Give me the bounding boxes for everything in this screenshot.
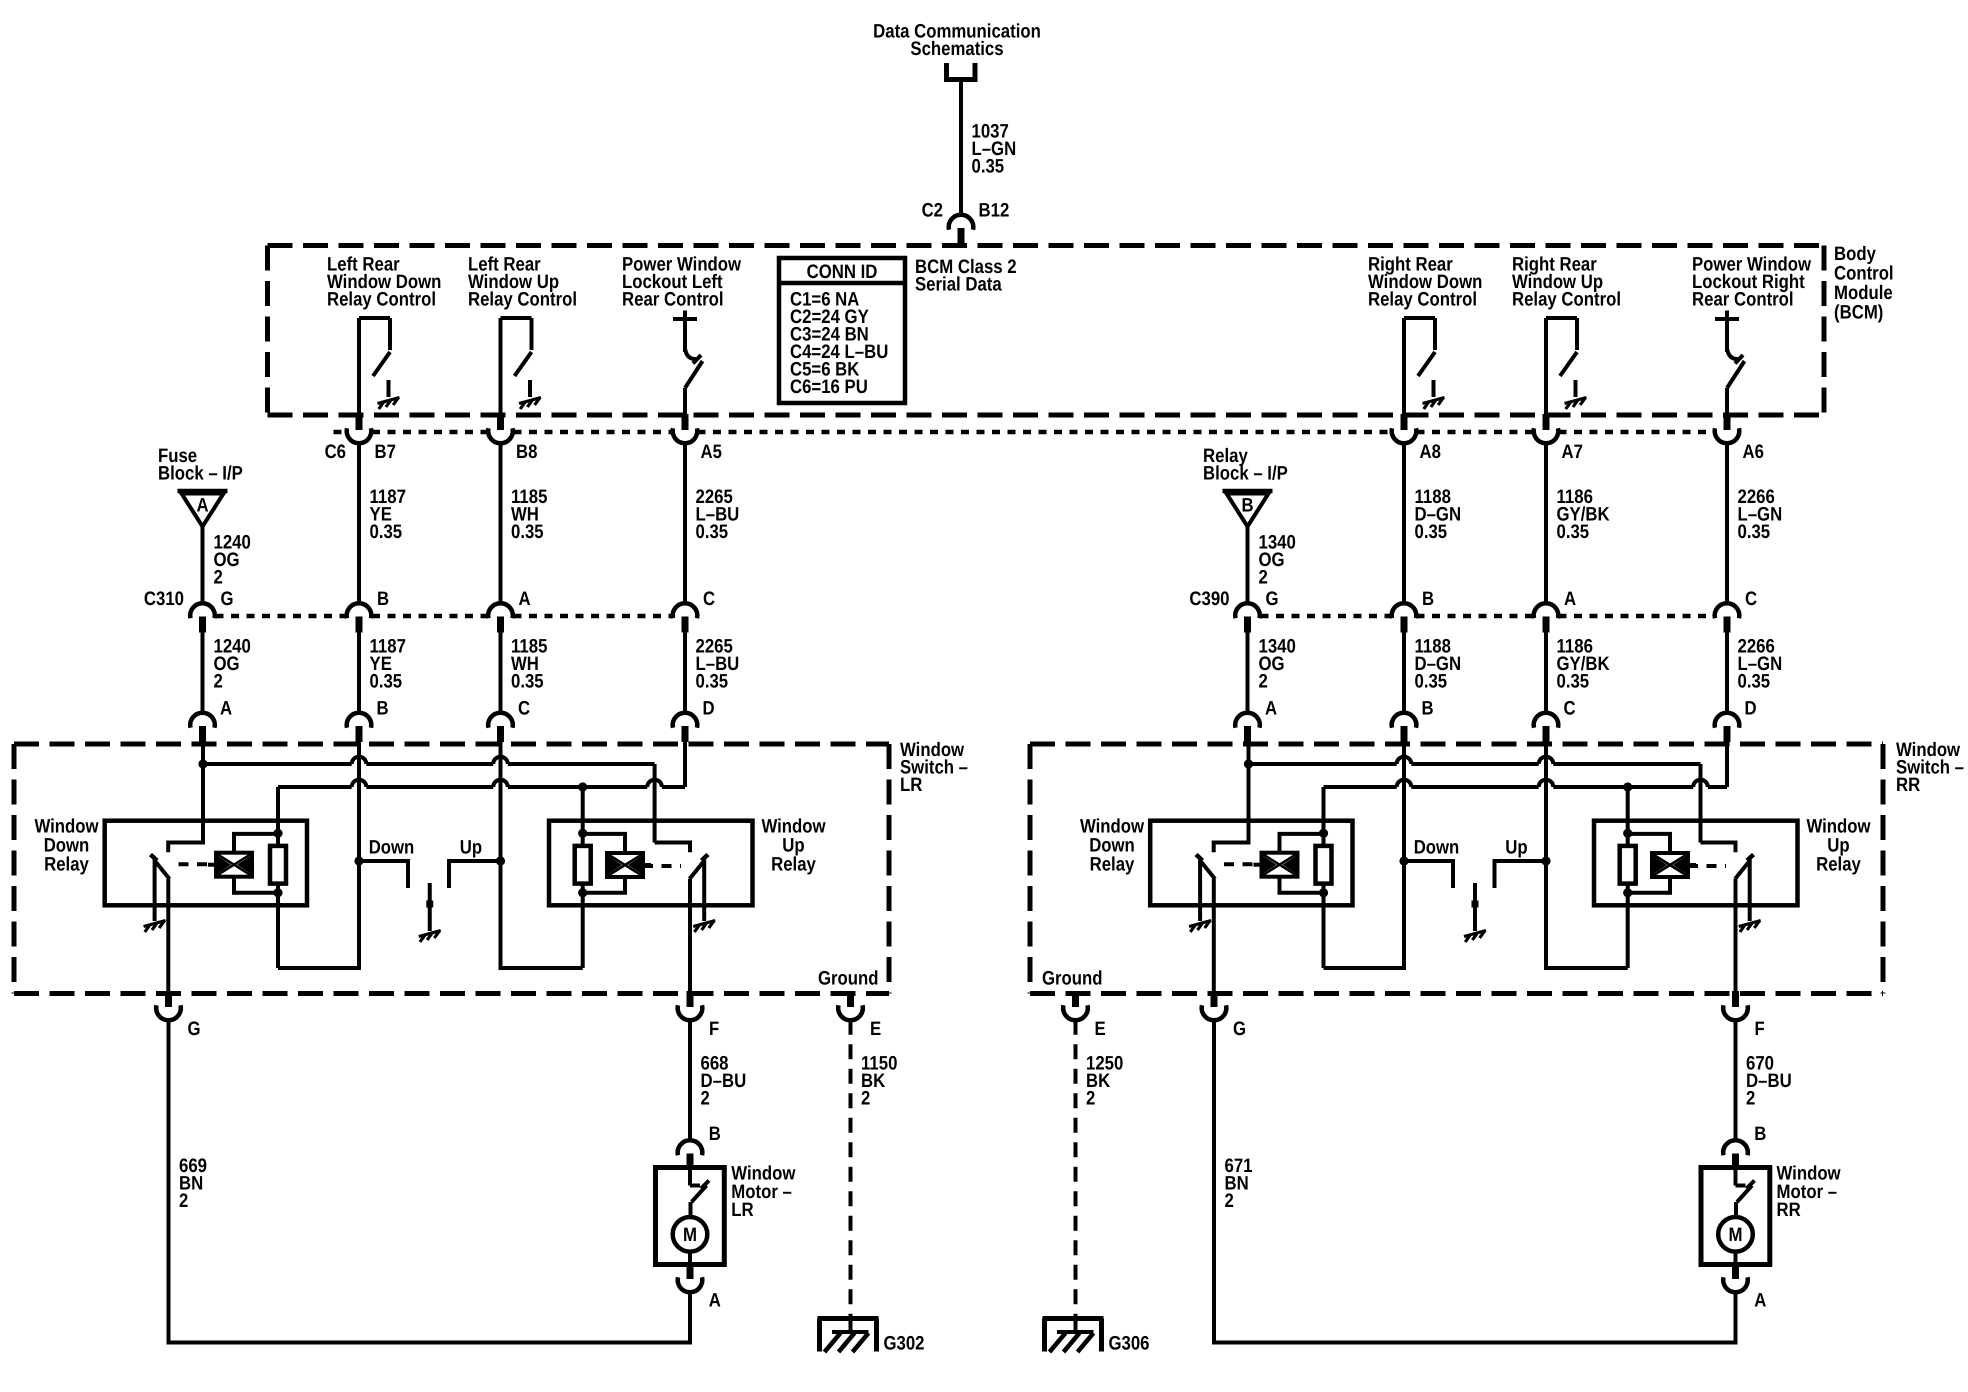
svg-text:Relay: Relay (771, 854, 816, 876)
svg-text:(BCM): (BCM) (1834, 302, 1883, 324)
connector C310/C390 pin B (1392, 603, 1417, 618)
wire blade to pin G (166, 879, 170, 995)
wire 670 pin F to motor pin B (1734, 1020, 1738, 1141)
connector B (window motor LR) (678, 1140, 703, 1155)
svg-text:A: A (196, 495, 208, 517)
wire coil bottom to pin B net (1324, 861, 1405, 968)
motor M circle (1718, 1217, 1753, 1252)
wire (1725, 443, 1729, 604)
connector G (LR switch) (165, 991, 172, 1007)
svg-text:0.35: 0.35 (1557, 671, 1590, 693)
svg-text:A5: A5 (701, 441, 723, 463)
svg-text:0.35: 0.35 (1415, 671, 1448, 693)
svg-text:D: D (1745, 698, 1757, 720)
svg-text:Down: Down (369, 837, 415, 859)
wire from pin B (to Down contact) (1402, 738, 1406, 861)
connector G (RR switch) (1211, 991, 1218, 1007)
svg-text:2: 2 (214, 567, 223, 589)
connector A7 (1543, 414, 1550, 430)
svg-text:2: 2 (1259, 567, 1268, 589)
BCM switch: power window lockout left rear (673, 317, 697, 321)
wire 671 bottom run to motor pin A (1214, 1292, 1736, 1343)
up relay coil (1652, 853, 1688, 877)
svg-text:Block – I/P: Block – I/P (1203, 463, 1288, 485)
svg-text:2: 2 (701, 1088, 710, 1110)
svg-text:2: 2 (179, 1190, 188, 1212)
connector window switch pin D (673, 713, 698, 728)
wire (357, 633, 361, 714)
svg-text:Block – I/P: Block – I/P (158, 463, 243, 485)
svg-text:2: 2 (214, 671, 223, 693)
svg-text:G: G (1266, 588, 1279, 610)
svg-text:B: B (1754, 1123, 1766, 1145)
down relay switch (168, 764, 203, 852)
svg-text:Up: Up (1505, 837, 1527, 859)
connector window switch pin C (488, 713, 513, 728)
wire from pin D (1725, 738, 1729, 787)
wire coil bottom to pin C net (501, 861, 583, 968)
connector A6 (1724, 414, 1731, 430)
svg-text:Relay Control: Relay Control (468, 289, 577, 311)
row-1 wire A to Up relay contact (1249, 762, 1397, 766)
svg-text:2: 2 (1746, 1088, 1755, 1110)
Window Motor - LR box (656, 1168, 725, 1265)
wire relay block output (1246, 527, 1250, 605)
row-2 wire D to relay coil taps (278, 785, 352, 789)
down relay resistor (1316, 846, 1332, 884)
BCM switch: left rear window down relay control (359, 316, 390, 320)
svg-text:0.35: 0.35 (972, 156, 1005, 178)
svg-text:A: A (1265, 698, 1277, 720)
down relay ground wire (1198, 858, 1202, 921)
row-1 wire A to Up relay contact (203, 762, 352, 766)
svg-text:Rear Control: Rear Control (1692, 289, 1794, 311)
svg-text:G: G (188, 1018, 201, 1040)
dotted line C390 row (1261, 614, 1392, 619)
wire 1037 serial data (959, 80, 963, 216)
svg-text:Down: Down (1414, 837, 1460, 859)
svg-text:A: A (709, 1290, 721, 1312)
fuse block triangle A (178, 489, 228, 494)
connector C310/C390 pin C (1715, 603, 1740, 618)
motor circuit breaker (688, 1168, 692, 1186)
connector E (LR switch ground) (847, 991, 854, 1007)
rocker common pole (428, 883, 432, 931)
svg-text:B: B (1422, 698, 1434, 720)
svg-text:E: E (870, 1018, 881, 1040)
svg-text:A7: A7 (1562, 441, 1583, 463)
wire 669 pin G down (167, 1020, 171, 1345)
svg-text:CONN ID: CONN ID (807, 261, 878, 283)
svg-text:D: D (703, 698, 715, 720)
connector C6/B7 (356, 414, 363, 430)
svg-text:F: F (1755, 1018, 1765, 1040)
connector B8 (497, 414, 504, 430)
svg-text:A8: A8 (1420, 441, 1442, 463)
wire (683, 443, 687, 604)
dotted line C310 row (216, 614, 347, 619)
wire (1544, 443, 1548, 604)
wire fuse output (201, 527, 205, 605)
svg-text:0.35: 0.35 (696, 521, 729, 543)
down relay coil (216, 853, 252, 877)
motor M circle (673, 1217, 708, 1252)
Down/Up rocker switch (RR) (1399, 856, 1408, 865)
Down contact (1404, 861, 1453, 888)
connector C310/C390 pin A (488, 603, 513, 618)
svg-text:A6: A6 (1743, 441, 1765, 463)
connector window switch pin B (1392, 713, 1417, 728)
connector window switch pin A (190, 713, 215, 728)
svg-text:A: A (1564, 588, 1576, 610)
ground G306 (1043, 1316, 1104, 1321)
svg-text:F: F (709, 1018, 719, 1040)
wire (1725, 633, 1729, 714)
up relay switch (655, 843, 690, 853)
svg-text:0.35: 0.35 (696, 671, 729, 693)
svg-text:C6: C6 (325, 441, 347, 463)
down relay actuator dashed link (1224, 862, 1261, 866)
up relay actuator dashed link (643, 864, 681, 868)
Up contact (1495, 861, 1547, 888)
svg-text:C: C (1745, 588, 1757, 610)
up relay actuator dashed link (1688, 864, 1726, 868)
connector F (LR switch) (687, 991, 694, 1007)
motor circuit breaker (1734, 1168, 1738, 1186)
connector A (window motor LR) (687, 1263, 694, 1279)
rocker common pole (1473, 883, 1477, 931)
svg-text:0.35: 0.35 (1738, 521, 1771, 543)
connector window switch pin B (347, 713, 372, 728)
svg-text:Relay: Relay (44, 854, 89, 876)
ground (down relay) (144, 921, 166, 927)
svg-text:C390: C390 (1189, 588, 1229, 610)
svg-text:A: A (1754, 1290, 1766, 1312)
svg-text:B: B (709, 1123, 721, 1145)
svg-text:Relay Control: Relay Control (1512, 289, 1621, 311)
ground (down relay) (1189, 921, 1211, 927)
connector E (RR switch ground) (1072, 991, 1079, 1007)
Window Switch - RR dashed box (1030, 742, 1883, 747)
svg-text:C2: C2 (922, 200, 944, 222)
svg-text:G302: G302 (884, 1333, 925, 1355)
wire from pin A (1247, 738, 1251, 764)
junction row 2 / up relay coil (578, 782, 587, 791)
connector F (RR switch) (1732, 991, 1739, 1007)
connector window switch pin C (1534, 713, 1559, 728)
svg-text:2: 2 (1259, 671, 1268, 693)
svg-text:0.35: 0.35 (511, 521, 544, 543)
connector B (window motor RR) (1723, 1140, 1748, 1155)
junction row 2 / up relay coil (1623, 782, 1632, 791)
BCM switch: right rear window up relay control (1546, 316, 1577, 320)
svg-text:RR: RR (1896, 774, 1920, 796)
Up contact (449, 861, 501, 888)
down relay actuator dashed link (179, 862, 216, 866)
wire (201, 633, 205, 714)
svg-text:C6=16 PU: C6=16 PU (790, 376, 868, 398)
wire (1402, 443, 1406, 604)
svg-text:G: G (1233, 1018, 1246, 1040)
svg-text:B: B (1241, 495, 1253, 517)
BCM switch: power window lockout right rear (1715, 317, 1739, 321)
svg-text:B: B (1422, 588, 1434, 610)
svg-text:Ground: Ground (818, 968, 879, 990)
wire 1150 BK to G302 (dashed) (849, 1020, 853, 1316)
connector C310/C390 pin B (347, 603, 372, 618)
svg-text:0.35: 0.35 (1557, 521, 1590, 543)
svg-text:C: C (518, 698, 530, 720)
junction wire A / row 1 (198, 759, 207, 768)
up relay coil (607, 853, 643, 877)
svg-text:G: G (221, 588, 234, 610)
wire (499, 443, 503, 604)
up relay resistor (575, 846, 591, 884)
up relay switch (1701, 843, 1736, 853)
Body Control Module (BCM) dashed box (268, 243, 1825, 248)
connector A (window motor RR) (1732, 1263, 1739, 1279)
ground (rocker) (419, 931, 441, 937)
svg-text:Schematics: Schematics (910, 38, 1003, 60)
wire (1246, 633, 1250, 714)
svg-text:B: B (377, 588, 389, 610)
svg-text:Relay Control: Relay Control (1368, 289, 1477, 311)
svg-text:A: A (220, 698, 232, 720)
svg-text:E: E (1095, 1018, 1106, 1040)
Window Down Relay box (LR) (105, 821, 307, 906)
svg-text:2: 2 (861, 1088, 870, 1110)
wire blade to pin F (1734, 879, 1738, 995)
row-1 drop into Up relay (1699, 764, 1703, 843)
svg-text:0.35: 0.35 (1415, 521, 1448, 543)
svg-text:2: 2 (1086, 1088, 1095, 1110)
svg-text:Serial Data: Serial Data (915, 274, 1002, 296)
svg-text:0.35: 0.35 (1738, 671, 1771, 693)
svg-text:B: B (377, 698, 389, 720)
BCM switch: left rear window up relay control (501, 316, 532, 320)
svg-text:Up: Up (460, 837, 482, 859)
svg-text:0.35: 0.35 (511, 671, 544, 693)
connector C310/C390 pin A (1534, 603, 1559, 618)
Window Motor - RR box (1701, 1168, 1770, 1265)
down relay switch (1214, 764, 1249, 852)
wire blade to pin F (688, 879, 692, 995)
svg-text:RR: RR (1777, 1199, 1801, 1221)
svg-text:LR: LR (900, 774, 922, 796)
dotted harness line below BCM (334, 430, 347, 435)
down relay coil (1262, 853, 1298, 877)
svg-text:B12: B12 (979, 200, 1010, 222)
up relay ground wire (1748, 858, 1752, 921)
relay block triangle B (1223, 489, 1273, 494)
Window Up Relay box (LR) (549, 821, 753, 906)
Window Switch - LR dashed box (14, 742, 889, 747)
CONN ID table (779, 258, 905, 403)
junction wire A / row 1 (1244, 759, 1253, 768)
connector window switch pin A (1235, 713, 1260, 728)
svg-text:M: M (683, 1224, 697, 1246)
svg-text:0.35: 0.35 (370, 521, 403, 543)
wire from pin D (683, 738, 687, 787)
wire 1250 BK to G306 (dashed) (1074, 1020, 1078, 1316)
connector A8 (1401, 414, 1408, 430)
wire 668 pin F to motor pin B (688, 1020, 692, 1141)
svg-text:Relay: Relay (1816, 854, 1861, 876)
off-page bracket (947, 63, 976, 80)
wire (357, 443, 361, 604)
connector A5 (682, 414, 689, 430)
wire (1402, 633, 1406, 714)
connector window switch pin D (1715, 713, 1740, 728)
svg-text:B7: B7 (375, 441, 396, 463)
wire (683, 633, 687, 714)
svg-text:G306: G306 (1109, 1333, 1150, 1355)
wire coil bottom to pin C net (1546, 861, 1628, 968)
svg-text:A: A (519, 588, 531, 610)
Down/Up rocker switch (LR) (354, 856, 363, 865)
svg-text:Relay Control: Relay Control (327, 289, 436, 311)
ground G302 (818, 1316, 879, 1321)
svg-text:B8: B8 (516, 441, 538, 463)
connector C310/C390 pin G (1235, 603, 1260, 618)
svg-text:Ground: Ground (1042, 968, 1103, 990)
svg-text:C310: C310 (144, 588, 184, 610)
Down contact (359, 861, 408, 888)
wire (1544, 633, 1548, 714)
row-2 wire D to relay coil taps (1324, 785, 1397, 789)
down relay ground wire (153, 858, 157, 921)
row-1 drop into Up relay (653, 764, 657, 843)
wire from pin B (to Down contact) (357, 738, 361, 861)
wire from pin C (to Up contact) (1544, 738, 1548, 861)
svg-text:Relay: Relay (1090, 854, 1135, 876)
wire (499, 633, 503, 714)
wire 669 bottom run to motor pin A (169, 1292, 691, 1343)
svg-text:C: C (703, 588, 715, 610)
svg-text:LR: LR (731, 1199, 753, 1221)
wire from pin C (to Up contact) (499, 738, 503, 861)
ground (up relay) (1739, 921, 1761, 927)
connector C2/B12 (949, 215, 974, 230)
svg-text:2: 2 (1225, 1190, 1234, 1212)
ground (rocker) (1464, 931, 1486, 937)
Window Down Relay box (RR) (1150, 821, 1352, 906)
ground (up relay) (693, 921, 715, 927)
wire from pin A (201, 738, 205, 764)
wire blade to pin G (1212, 879, 1216, 995)
svg-text:Rear Control: Rear Control (622, 289, 724, 311)
svg-text:M: M (1729, 1224, 1743, 1246)
up relay resistor (1620, 846, 1636, 884)
svg-text:0.35: 0.35 (370, 671, 403, 693)
connector C310/C390 pin C (673, 603, 698, 618)
svg-text:C: C (1564, 698, 1576, 720)
wire 671 pin G down (1212, 1020, 1216, 1345)
BCM switch: right rear window down relay control (1404, 316, 1435, 320)
up relay ground wire (702, 858, 706, 921)
Window Up Relay box (RR) (1594, 821, 1798, 906)
wire coil bottom to pin B net (278, 861, 359, 968)
down relay resistor (270, 846, 286, 884)
connector C310/C390 pin G (190, 603, 215, 618)
